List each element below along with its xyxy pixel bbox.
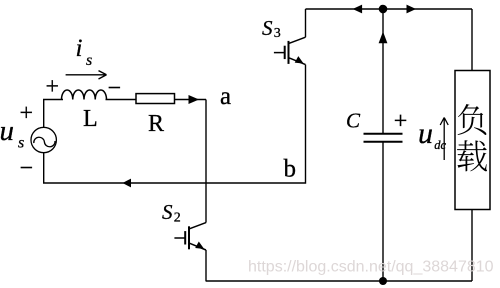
junction dot top xyxy=(379,5,388,14)
wire: top rail xyxy=(306,8,473,10)
svg-text:i: i xyxy=(76,35,83,62)
arrow left on top rail xyxy=(353,5,363,14)
svg-text:u: u xyxy=(418,117,433,150)
wire: S2 emitter vertical to bottom rail xyxy=(205,250,207,281)
transistor S2 xyxy=(174,223,206,250)
load text 负 xyxy=(458,104,487,135)
svg-text:3: 3 xyxy=(274,26,281,41)
svg-text:S: S xyxy=(162,200,173,224)
load text 载 xyxy=(457,140,487,171)
svg-text:S: S xyxy=(262,16,273,40)
AC source u_s circle xyxy=(31,127,56,152)
AC source sine xyxy=(34,137,55,147)
arrow into node a xyxy=(189,95,200,104)
svg-text:R: R xyxy=(148,111,164,137)
svg-text:L: L xyxy=(83,106,98,132)
arrow up on capacitor branch xyxy=(379,32,388,44)
svg-text:s: s xyxy=(86,52,92,69)
wire: resistor to node a corner xyxy=(175,99,207,101)
svg-text:C: C xyxy=(346,108,361,132)
transistor S3 xyxy=(274,37,306,64)
arrow u_dc xyxy=(440,118,448,161)
current arrow i_s xyxy=(66,71,107,79)
svg-text:+: + xyxy=(20,101,34,127)
arrow right on top rail xyxy=(407,5,417,14)
wire: load bottom to bottom rail xyxy=(471,210,473,282)
wire: capacitor branch vertical xyxy=(382,9,384,281)
svg-text:−: − xyxy=(108,76,122,102)
wire: S3 collector vertical xyxy=(305,9,307,37)
svg-text:+: + xyxy=(394,108,408,134)
wire: inductor to resistor xyxy=(106,99,137,101)
wire: source top to inductor xyxy=(44,100,63,128)
svg-text:s: s xyxy=(18,135,24,152)
svg-text:b: b xyxy=(284,155,297,182)
resistor R box xyxy=(136,94,175,104)
inductor L arcs xyxy=(62,90,107,100)
arrow left on b wire xyxy=(123,179,132,188)
junction dot bottom xyxy=(379,277,387,285)
svg-text:u: u xyxy=(0,115,14,147)
svg-text:dc: dc xyxy=(434,138,446,152)
wire: bottom rail xyxy=(206,280,472,282)
load box xyxy=(455,71,490,210)
capacitor C plates xyxy=(364,134,403,142)
svg-text:+: + xyxy=(46,74,60,100)
wire: b horizontal from source to S3 emitter xyxy=(44,65,306,183)
svg-text:https://blog.csdn.net/qq_38847: https://blog.csdn.net/qq_38847810 xyxy=(248,259,494,276)
wire: right side down to load xyxy=(471,9,473,71)
svg-text:a: a xyxy=(220,83,231,110)
svg-text:2: 2 xyxy=(174,211,181,226)
svg-text:−: − xyxy=(20,156,34,182)
wire: node a vertical to S2 collector xyxy=(205,100,207,223)
